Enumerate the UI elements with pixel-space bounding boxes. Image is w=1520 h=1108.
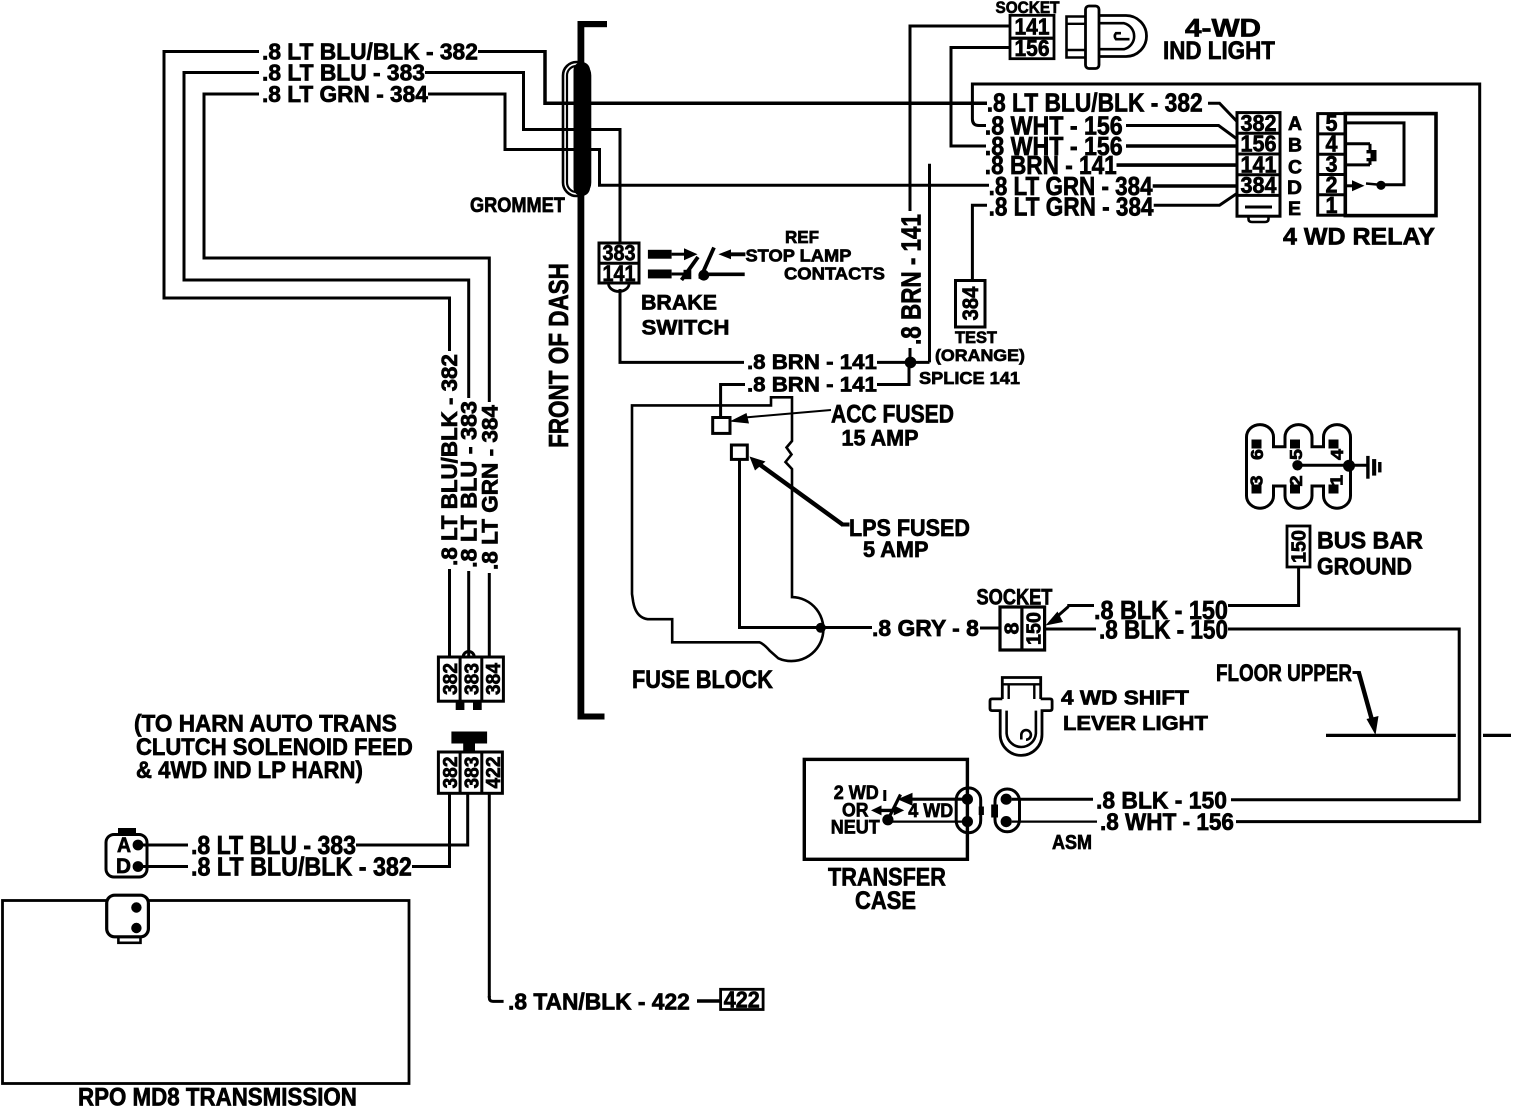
svg-text:SWITCH: SWITCH <box>642 315 730 339</box>
bus bar ground 150 connector <box>1287 526 1310 567</box>
floor arrow line <box>1359 672 1373 723</box>
wire gry to socket <box>980 627 1000 630</box>
floor line left segment <box>1326 734 1456 737</box>
wire 382 left run <box>164 50 450 298</box>
wire gry-8 from lps fuse <box>740 459 873 627</box>
wire 382 left stub <box>164 50 259 53</box>
wire blk-150 stub <box>1067 604 1094 607</box>
socket connector 141/156 <box>1010 15 1054 58</box>
svg-text:382: 382 <box>440 663 462 695</box>
acc arrow head <box>730 413 750 424</box>
svg-text:2: 2 <box>1287 475 1307 486</box>
svg-text:NEUT: NEUT <box>831 816 880 838</box>
connector A/D <box>106 835 147 878</box>
svg-text:C: C <box>1288 158 1302 179</box>
wire 141 vertical upper <box>909 25 912 211</box>
switch arrow line <box>911 798 963 801</box>
svg-text:IND LIGHT: IND LIGHT <box>1163 38 1275 65</box>
stop lamp contact terminal 383 <box>648 250 672 259</box>
wire 384 right stub <box>428 93 507 96</box>
connector pin tab right <box>473 701 482 710</box>
grommet <box>574 62 591 196</box>
relay fixed contact <box>1376 181 1385 190</box>
svg-text:.8 BRN - 141: .8 BRN - 141 <box>896 214 927 345</box>
svg-text:GROUND: GROUND <box>1317 552 1412 579</box>
svg-text:156: 156 <box>1015 35 1050 61</box>
relay contact arm <box>1366 184 1377 185</box>
svg-text:4 WD RELAY: 4 WD RELAY <box>1283 224 1435 250</box>
relay coil side <box>1369 144 1372 165</box>
svg-text:STOP LAMP: STOP LAMP <box>746 246 852 266</box>
wire blk-150 long run <box>1228 629 1459 800</box>
switch lever <box>888 795 901 820</box>
test connector 384 <box>956 281 986 328</box>
lps fuse terminal <box>731 445 747 459</box>
svg-text:5 AMP: 5 AMP <box>863 537 928 562</box>
svg-text:& 4WD IND LP HARN): & 4WD IND LP HARN) <box>136 756 363 783</box>
svg-text:382: 382 <box>440 756 462 788</box>
wire 382 vertical upper <box>448 297 451 352</box>
wire 383 stub <box>142 844 188 847</box>
svg-text:384: 384 <box>959 286 983 320</box>
wire 141 from socket <box>910 26 1010 211</box>
ground junction dot <box>1343 460 1355 472</box>
transfer case box <box>804 759 967 859</box>
svg-text:.8 LT BLU/BLK - 382: .8 LT BLU/BLK - 382 <box>191 853 412 881</box>
svg-text:TEST: TEST <box>955 328 998 347</box>
svg-text:1: 1 <box>1325 192 1337 218</box>
switch sense line <box>891 820 963 822</box>
svg-text:4 WD: 4 WD <box>908 800 953 822</box>
wire 383 vertical upper <box>467 279 470 399</box>
wire 383 vertical lower <box>467 571 470 658</box>
svg-text:(ORANGE): (ORANGE) <box>935 345 1025 365</box>
wire 422 foot <box>489 996 503 1001</box>
wire 422 stub <box>697 999 720 1002</box>
svg-text:4: 4 <box>1328 448 1348 460</box>
4wd shift lever light bulb icon <box>1002 678 1040 700</box>
svg-text:422: 422 <box>724 987 760 1013</box>
connector bump <box>463 652 474 657</box>
harness pill tab <box>991 805 998 818</box>
svg-text:CASE: CASE <box>855 887 916 915</box>
switch position tick <box>883 790 886 801</box>
wire blk-150 from bus bar <box>1228 567 1299 606</box>
relay pin column 5-1 <box>1318 114 1346 216</box>
contact blade 383 <box>682 257 699 280</box>
relay coil body <box>1367 150 1377 161</box>
floor arrow head <box>1367 716 1379 735</box>
harness connector pill <box>995 789 1020 832</box>
junction at fuse block edge <box>816 623 826 633</box>
wire 384 through grommet <box>505 93 989 186</box>
svg-text:.8 BRN - 141: .8 BRN - 141 <box>747 372 877 396</box>
svg-text:1: 1 <box>1327 475 1347 486</box>
svg-text:4 WD SHIFT: 4 WD SHIFT <box>1061 687 1189 710</box>
connector tab <box>118 828 136 835</box>
svg-text:SPLICE 141: SPLICE 141 <box>919 368 1020 388</box>
wire 156 long run around right <box>972 84 1479 822</box>
relay coil wire pin3 <box>1345 163 1370 166</box>
wire 383 left run <box>184 71 469 280</box>
svg-text:REF: REF <box>785 227 819 248</box>
svg-text:383: 383 <box>461 756 483 788</box>
wire 384 to connector pin D <box>1153 184 1237 188</box>
dash top hook <box>579 21 608 27</box>
lps arrow head <box>750 457 766 471</box>
svg-text:150: 150 <box>1023 612 1045 645</box>
4WD relay connector block 382/156/141/384 <box>1237 113 1280 217</box>
splice 141 junction dot <box>905 357 917 369</box>
svg-text:15 AMP: 15 AMP <box>842 425 919 450</box>
4-WD IND LIGHT bulb icon <box>1086 6 1100 69</box>
harness connector 382/383/422 cap <box>451 732 487 744</box>
svg-text:ACC FUSED: ACC FUSED <box>831 400 954 428</box>
ground wire <box>1298 464 1368 467</box>
RPO MD8 transmission box <box>3 901 410 1084</box>
svg-text:BUS BAR: BUS BAR <box>1317 528 1423 554</box>
connector pin tab left <box>456 701 465 710</box>
relay wire pin5 to contact <box>1345 123 1404 185</box>
transmission connector <box>107 895 149 937</box>
floor line right segment <box>1483 734 1511 737</box>
acc arrow line <box>745 410 831 418</box>
contact lead 141 <box>672 273 686 276</box>
svg-text:.8 GRY - 8: .8 GRY - 8 <box>872 615 979 641</box>
harness connector 382/383/384 <box>438 657 503 701</box>
wire 384 test branch down <box>972 205 987 281</box>
svg-text:CONTACTS: CONTACTS <box>784 264 885 284</box>
svg-text:.8 LT GRN - 384: .8 LT GRN - 384 <box>478 404 503 570</box>
front of dash line <box>578 21 585 720</box>
wire 383 right stub <box>425 71 525 74</box>
contact lead 383 <box>672 253 685 256</box>
svg-text:E: E <box>1288 199 1301 220</box>
svg-text:BRAKE: BRAKE <box>641 292 717 315</box>
wire 384 vertical lower <box>488 573 491 658</box>
wire 384 left run <box>204 93 489 259</box>
ref arrow <box>718 249 745 259</box>
svg-text:384: 384 <box>483 663 505 695</box>
svg-text:D: D <box>1287 178 1302 199</box>
wire 156 from socket <box>951 48 1010 147</box>
ground pin dot <box>1292 460 1302 470</box>
wire wht-156 asm <box>1012 820 1097 822</box>
wire 383 to pin A <box>359 793 468 845</box>
wire 382 vertical lower <box>448 569 451 658</box>
svg-text:.8 LT GRN - 384: .8 LT GRN - 384 <box>989 193 1154 222</box>
relay movable contact arrow <box>1352 180 1365 191</box>
svg-text:422: 422 <box>483 756 505 788</box>
contact pivot 141 <box>698 270 709 281</box>
svg-text:5: 5 <box>1287 449 1307 460</box>
wire 141 vertical lower <box>909 348 912 364</box>
contact arrow 383 <box>684 248 698 260</box>
wire 156 to connector pin B straight <box>1126 144 1237 148</box>
socket connector 8/150 <box>1000 607 1045 650</box>
svg-text:GROMMET: GROMMET <box>470 194 565 218</box>
svg-text:.8 BRN - 141: .8 BRN - 141 <box>747 350 877 374</box>
harness connector 382/383/422 <box>438 752 502 793</box>
wire 382 to pin D <box>415 793 450 866</box>
net box 422 <box>721 989 764 1009</box>
wire blk-150 asm <box>1012 798 1093 801</box>
svg-text:FUSE BLOCK: FUSE BLOCK <box>632 666 773 694</box>
svg-text:383: 383 <box>461 663 483 695</box>
wire 141 to connector pin C <box>1117 163 1238 167</box>
brake switch connector 383/141 <box>599 243 639 283</box>
switch arrow head <box>898 793 913 806</box>
wire 141 to acc fuse <box>721 385 745 419</box>
wire 156 hook to label <box>972 83 986 126</box>
svg-text:8: 8 <box>1001 622 1023 634</box>
wire 384 test to connector pin D <box>1154 193 1238 205</box>
svg-text:A: A <box>1288 114 1302 135</box>
switch pivot <box>882 814 893 825</box>
wire blk-150 second stub <box>1046 628 1096 631</box>
connector bottom tab <box>1249 216 1269 222</box>
wire 382 through grommet <box>545 50 987 103</box>
wire 141 vertical from relay stack <box>928 164 931 363</box>
svg-text:.8 BLK - 150: .8 BLK - 150 <box>1099 616 1228 645</box>
svg-text:FLOOR UPPER: FLOOR UPPER <box>1216 659 1352 687</box>
stop lamp contact terminal 141 <box>648 270 672 279</box>
svg-text:.8 LT GRN - 384: .8 LT GRN - 384 <box>262 81 428 107</box>
bus bar ground 6-cavity connector <box>1247 425 1351 509</box>
wire 422 vertical <box>488 793 491 997</box>
svg-text:3: 3 <box>1247 475 1267 486</box>
contact pad 141 <box>684 270 692 279</box>
svg-text:D: D <box>116 855 131 878</box>
arrow into socket <box>1046 612 1064 626</box>
wire 156 to connector pin B <box>1126 126 1237 140</box>
transfer case connector pill <box>956 788 981 833</box>
contact lead right 141 <box>708 272 745 276</box>
transmission connector tab <box>118 937 140 943</box>
connector pin E dash <box>1245 206 1272 209</box>
wire 141 to splice <box>877 361 930 364</box>
lps arrow line <box>757 463 843 525</box>
switch double arrow <box>877 809 898 812</box>
svg-text:6: 6 <box>1248 449 1268 460</box>
relay coil wire pin4 <box>1345 142 1370 145</box>
svg-text:RPO MD8 TRANSMISSION: RPO MD8 TRANSMISSION <box>78 1085 357 1108</box>
wire blk-150 diagonal <box>1052 607 1069 622</box>
svg-text:ASM: ASM <box>1052 832 1092 854</box>
wire 141 lower to splice <box>877 364 909 385</box>
svg-text:150: 150 <box>1288 530 1310 563</box>
wire 383 through grommet to brake switch <box>524 71 621 244</box>
svg-text:A: A <box>117 835 131 858</box>
wire 383 left stub <box>184 71 259 74</box>
fuse block outline <box>632 397 823 661</box>
lps arrow foot <box>841 523 850 527</box>
relay contact wire pin2 <box>1345 184 1353 187</box>
svg-text:B: B <box>1288 136 1302 157</box>
svg-text:LEVER LIGHT: LEVER LIGHT <box>1063 713 1208 735</box>
contact blade 141 <box>700 248 714 280</box>
ground symbol <box>1366 456 1369 479</box>
svg-text:141: 141 <box>603 262 636 286</box>
bulb filament <box>1021 730 1031 740</box>
svg-text:.8 WHT - 156: .8 WHT - 156 <box>1100 808 1234 835</box>
dash bottom hook <box>579 714 605 720</box>
svg-text:.8 TAN/BLK - 422: .8 TAN/BLK - 422 <box>508 988 690 1014</box>
svg-text:FRONT OF DASH: FRONT OF DASH <box>544 263 575 448</box>
pill tab <box>979 807 984 816</box>
wire 382 stub <box>142 865 188 868</box>
brake switch connector tab <box>609 284 630 292</box>
wire 141 from brake switch <box>620 289 744 362</box>
wire 384 vertical upper <box>488 257 491 403</box>
wire 384 left stub <box>204 93 259 96</box>
svg-text:384: 384 <box>1241 172 1278 198</box>
acc fuse terminal <box>713 418 730 434</box>
4 WD relay body <box>1345 114 1436 216</box>
wire 382 to connector pin A <box>1208 103 1237 121</box>
wire 382 right stub <box>478 50 547 53</box>
